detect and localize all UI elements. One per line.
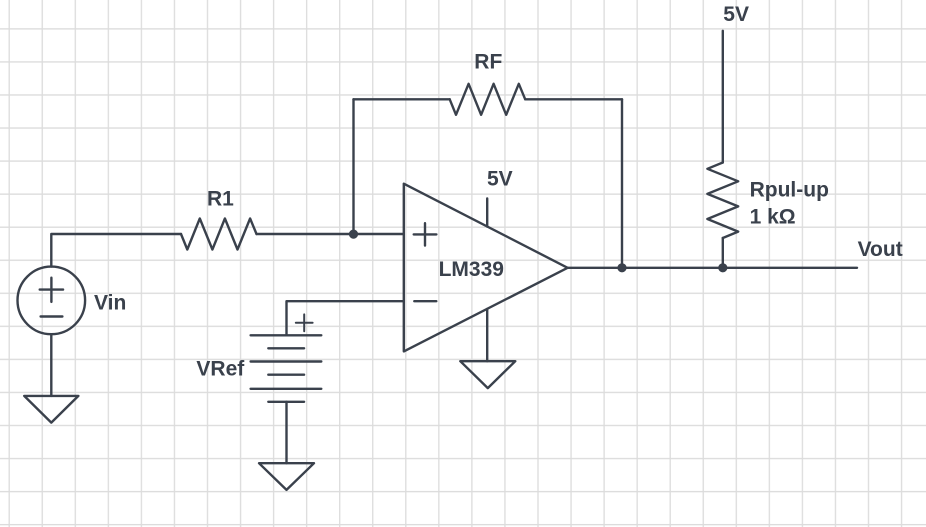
op-amp U1 triangle	[404, 184, 568, 352]
wire 5V to Rpull-up	[722, 31, 724, 163]
wire VRef bottom to ground	[285, 402, 287, 463]
node junction dot (RF right on output wire)	[617, 263, 626, 272]
svg-text:R1: R1	[207, 188, 234, 211]
svg-text:5V: 5V	[723, 3, 749, 26]
svg-text:Vin: Vin	[94, 292, 126, 315]
op-amp 5V supply pin	[486, 199, 488, 227]
svg-text:VRef: VRef	[196, 358, 245, 381]
wire Vin bottom to ground	[50, 334, 52, 396]
svg-text:5V: 5V	[487, 168, 513, 191]
svg-text:Rpul-up: Rpul-up	[750, 179, 829, 202]
node junction dot (pull-up on output wire)	[718, 263, 727, 272]
ground (Vin)	[24, 396, 78, 423]
wire R1 to op-amp plus input	[257, 233, 404, 235]
resistor RF	[450, 84, 526, 115]
wire RF left vertical	[352, 99, 354, 234]
svg-text:1 kΩ: 1 kΩ	[750, 206, 796, 229]
svg-text:LM339: LM339	[439, 258, 504, 281]
voltage source Vin	[18, 267, 86, 335]
wire VRef to op-amp minus input	[287, 301, 404, 335]
resistor R1	[181, 219, 257, 250]
svg-text:RF: RF	[474, 51, 502, 74]
wire RF right vertical to output	[621, 99, 623, 267]
wire Rpull-up bottom to output	[722, 238, 724, 268]
svg-text:Vout: Vout	[858, 238, 903, 261]
wire RF top right	[525, 98, 622, 100]
wire Vin top to R1	[51, 234, 181, 267]
op-amp plus input symbol	[414, 223, 437, 245]
op-amp minus input symbol	[414, 300, 436, 302]
battery VRef	[251, 314, 322, 401]
resistor Rpull-up	[707, 163, 738, 239]
node A junction dot (RF tap on plus input wire)	[349, 230, 358, 239]
wire RF top left	[354, 98, 450, 100]
op-amp ground pin	[486, 309, 488, 361]
ground (VRef)	[259, 463, 314, 490]
wire op-amp output to Vout	[568, 267, 857, 269]
ground (op-amp)	[460, 361, 515, 388]
